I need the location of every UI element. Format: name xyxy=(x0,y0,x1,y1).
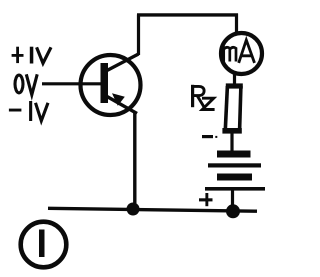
label -1V xyxy=(9,101,48,121)
wire: collector up to top rail xyxy=(137,15,140,56)
wire: emitter down to bottom rail xyxy=(133,112,136,210)
label - (battery negative) xyxy=(202,135,217,138)
wire: resistor to battery xyxy=(230,132,233,151)
figure number 1 (circled) xyxy=(21,222,67,268)
wire: meter to resistor xyxy=(233,73,236,86)
wire: top rail down to meter xyxy=(235,14,238,34)
transistor Q1 (PNP) xyxy=(81,54,141,115)
junction: battery / bottom rail xyxy=(226,204,240,218)
label + (battery positive) xyxy=(199,193,213,206)
wire: battery to bottom rail xyxy=(231,190,234,210)
label RZ xyxy=(191,85,215,110)
label +1V xyxy=(12,47,51,64)
battery B1 xyxy=(205,151,265,191)
wire: base lead from 0V to transistor xyxy=(42,82,101,85)
milliammeter M1 xyxy=(221,33,262,74)
junction: emitter / bottom rail xyxy=(127,203,140,216)
wire: bottom rail xyxy=(48,208,257,211)
label 0V xyxy=(15,74,37,95)
resistor RZ body xyxy=(222,83,242,133)
wire: top rail xyxy=(137,13,238,16)
